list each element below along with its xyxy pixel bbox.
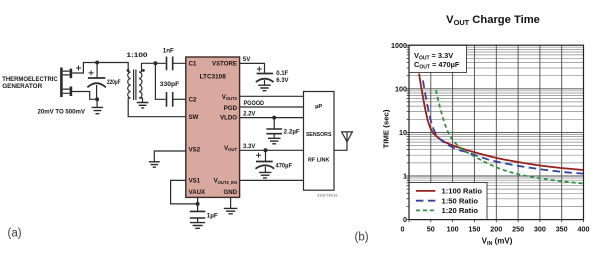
svg-text:3.3V: 3.3V bbox=[243, 144, 255, 150]
svg-text:1000: 1000 bbox=[391, 41, 407, 50]
svg-text:0: 0 bbox=[401, 225, 405, 234]
ground below 0.1F bbox=[258, 85, 271, 91]
capacitor 2.2uF bbox=[266, 118, 282, 138]
annotation box VOUT COUT bbox=[409, 45, 467, 72]
curve 1:50 blue bbox=[423, 81, 584, 174]
wire TEG+ to input node bbox=[72, 63, 95, 74]
wire VSTORE to 5V cap bbox=[240, 63, 265, 72]
svg-text:PGOOD: PGOOD bbox=[244, 101, 265, 107]
x axis labels bbox=[401, 225, 590, 234]
svg-text:400: 400 bbox=[578, 225, 590, 234]
wire secondary bottom to ground bbox=[142, 98, 143, 102]
ground below 1uF bbox=[190, 223, 205, 229]
svg-text:20mV TO 500mV: 20mV TO 500mV bbox=[38, 109, 86, 116]
svg-text:1:100 Ratio: 1:100 Ratio bbox=[442, 187, 483, 196]
phase dot primary bbox=[127, 69, 130, 72]
svg-text:µP: µP bbox=[315, 104, 322, 110]
svg-text:1:20 Ratio: 1:20 Ratio bbox=[442, 206, 479, 215]
svg-text:0.1F: 0.1F bbox=[276, 71, 288, 77]
plus sign at TEG output bbox=[76, 66, 81, 71]
svg-text:1nF: 1nF bbox=[163, 47, 174, 54]
svg-text:LTC3108: LTC3108 bbox=[200, 74, 227, 81]
ground below 220uF bbox=[92, 99, 104, 113]
node VOUT cap bbox=[264, 148, 268, 152]
ground at VS2 bbox=[149, 162, 160, 167]
wire secondary top to C1 node bbox=[142, 63, 156, 72]
svg-text:C1: C1 bbox=[189, 60, 197, 67]
ground below 470uF bbox=[259, 172, 271, 178]
capacitor 1uF bbox=[190, 204, 206, 222]
node VLDO cap bbox=[272, 116, 276, 120]
svg-text:2.2V: 2.2V bbox=[243, 112, 255, 118]
plot frame bbox=[409, 45, 584, 219]
svg-text:SENSORS: SENSORS bbox=[306, 132, 332, 138]
svg-text:300: 300 bbox=[534, 225, 546, 234]
svg-text:6.3V: 6.3V bbox=[276, 78, 288, 84]
svg-text:VLDO: VLDO bbox=[220, 115, 237, 122]
svg-text:250: 250 bbox=[512, 225, 524, 234]
svg-text:1µF: 1µF bbox=[207, 213, 218, 219]
svg-text:VOUT Charge Time: VOUT Charge Time bbox=[446, 14, 540, 27]
wire C1 node down to 330pF bbox=[155, 63, 165, 99]
wire VOUT2 to uP bbox=[240, 95, 304, 97]
svg-text:VS1: VS1 bbox=[189, 178, 201, 185]
capacitor 470uF bbox=[256, 150, 275, 172]
svg-text:GENERATOR: GENERATOR bbox=[2, 83, 42, 90]
minor log grid bbox=[409, 47, 584, 206]
svg-text:1:100: 1:100 bbox=[127, 52, 149, 59]
svg-text:50: 50 bbox=[427, 225, 435, 234]
ground below 2.2uF bbox=[268, 138, 281, 144]
node input bottom bbox=[95, 97, 99, 101]
thermoelectric generator TEG bbox=[60, 68, 72, 98]
svg-text:220µF: 220µF bbox=[107, 79, 121, 86]
IC U1 LTC3108 bbox=[186, 57, 240, 197]
svg-text:RF LINK: RF LINK bbox=[308, 158, 330, 164]
wire VOUT to uP bbox=[240, 149, 304, 151]
svg-text:150: 150 bbox=[468, 225, 480, 234]
svg-text:(b): (b) bbox=[355, 232, 369, 244]
node input top bbox=[95, 61, 99, 65]
svg-text:VS2: VS2 bbox=[189, 147, 201, 154]
wire VS1 to VAUX node bbox=[171, 180, 198, 204]
svg-text:PGD: PGD bbox=[224, 105, 238, 112]
legend blue sample bbox=[416, 200, 435, 202]
capacitor 220uF bbox=[87, 63, 105, 100]
antenna bbox=[334, 132, 352, 150]
svg-text:1:50 Ratio: 1:50 Ratio bbox=[442, 196, 479, 205]
svg-text:GND: GND bbox=[223, 189, 237, 196]
legend red sample bbox=[416, 190, 435, 192]
svg-text:VIN (mV): VIN (mV) bbox=[482, 237, 513, 248]
svg-text:5V: 5V bbox=[243, 56, 251, 63]
capacitor 1nF bbox=[155, 57, 185, 71]
label THERMOELECTRIC GENERATOR bbox=[2, 76, 58, 90]
legend green sample bbox=[416, 209, 435, 211]
node VAUX bbox=[196, 202, 200, 206]
major grid bbox=[409, 45, 584, 219]
node C1 junction bbox=[153, 61, 157, 65]
svg-text:VSTORE: VSTORE bbox=[212, 60, 237, 67]
wire primary bottom to SW bbox=[128, 98, 186, 117]
svg-text:TIME (sec): TIME (sec) bbox=[382, 109, 391, 148]
svg-text:100: 100 bbox=[395, 84, 407, 93]
svg-text:100: 100 bbox=[447, 225, 459, 234]
wire VLDO to uP bbox=[240, 117, 304, 119]
svg-text:(a): (a) bbox=[8, 228, 22, 240]
block uP SENSORS RF LINK bbox=[304, 92, 335, 191]
label 0.1F 6.3V bbox=[276, 71, 288, 84]
svg-text:THERMOELECTRIC: THERMOELECTRIC bbox=[2, 76, 58, 83]
wire GND pin to ground bbox=[230, 197, 232, 208]
svg-text:200: 200 bbox=[490, 225, 502, 234]
svg-text:350: 350 bbox=[556, 225, 568, 234]
svg-text:330pF: 330pF bbox=[160, 81, 180, 88]
ground below transformer bbox=[137, 103, 149, 108]
svg-text:2.2µF: 2.2µF bbox=[284, 129, 300, 135]
axis ticks bbox=[406, 45, 584, 222]
transformer T1 1:100 bbox=[128, 70, 142, 101]
curve 1:20 green bbox=[436, 90, 584, 184]
svg-text:C2: C2 bbox=[189, 97, 197, 104]
svg-text:3108 TA01a: 3108 TA01a bbox=[317, 194, 338, 198]
svg-text:1: 1 bbox=[403, 172, 407, 181]
capacitor 0.1F bbox=[256, 67, 274, 86]
capacitor 330pF bbox=[167, 92, 186, 107]
svg-text:VAUX: VAUX bbox=[189, 189, 206, 196]
svg-text:0: 0 bbox=[403, 215, 407, 224]
wire VS2 to ground bbox=[154, 151, 186, 162]
wire VOUT2_EN to uP bbox=[240, 179, 304, 181]
curve 1:100 red bbox=[419, 74, 584, 171]
legend box bbox=[409, 183, 487, 220]
svg-text:470µF: 470µF bbox=[276, 164, 293, 170]
wire TEG- to bottom node bbox=[72, 92, 95, 100]
phase dot secondary bbox=[142, 69, 145, 72]
y axis labels bbox=[391, 41, 407, 224]
ground at GND pin bbox=[224, 208, 238, 213]
wire VAUX to node bbox=[197, 197, 199, 204]
wire PGD to uP bbox=[240, 106, 304, 108]
svg-text:10: 10 bbox=[399, 128, 407, 137]
svg-text:SW: SW bbox=[189, 114, 199, 121]
wire input node to transformer primary bbox=[97, 63, 128, 73]
